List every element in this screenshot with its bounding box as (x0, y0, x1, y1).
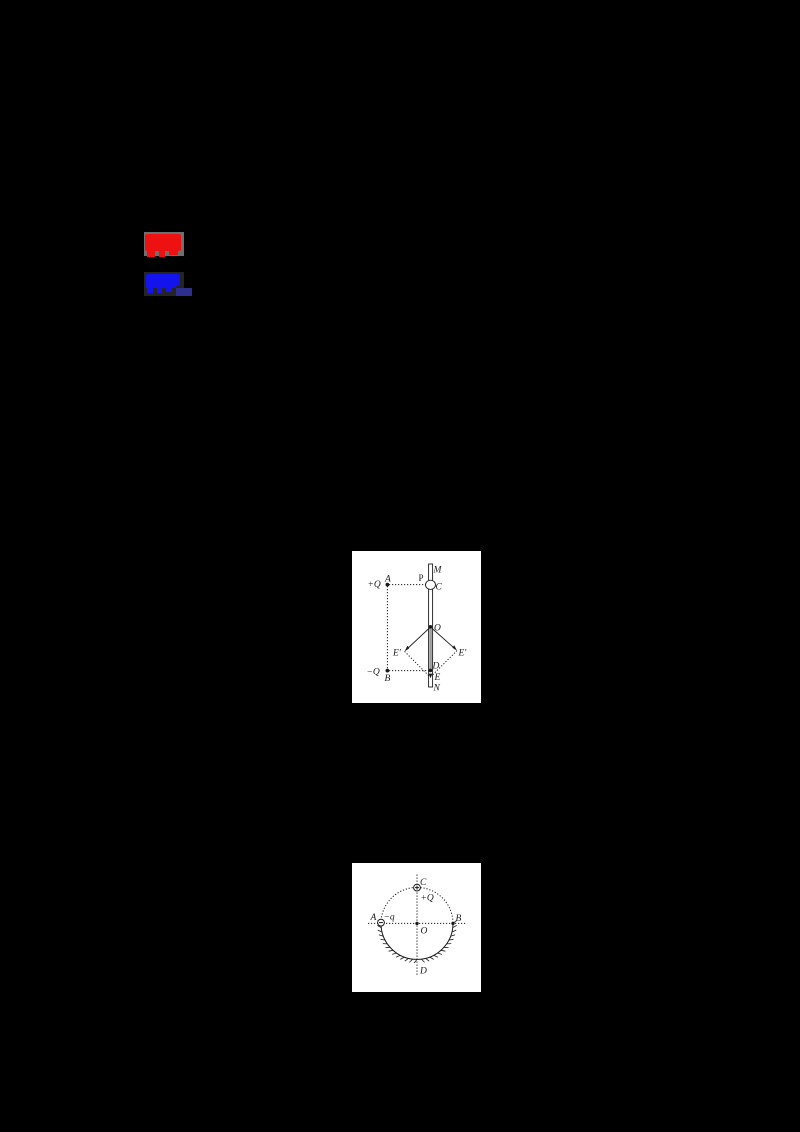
svg-text:B: B (385, 674, 391, 684)
svg-text:−Q: −Q (367, 668, 380, 678)
svg-text:D: D (419, 967, 427, 977)
svg-text:A: A (384, 575, 391, 585)
svg-text:N: N (433, 684, 441, 694)
svg-text:M: M (433, 566, 443, 576)
svg-text:E: E (434, 673, 441, 683)
svg-text:B: B (456, 914, 462, 924)
svg-text:O: O (434, 624, 441, 634)
svg-text:E′: E′ (392, 649, 402, 659)
svg-text:+Q: +Q (421, 894, 434, 904)
svg-text:C: C (436, 583, 443, 593)
svg-text:O: O (421, 927, 428, 937)
svg-text:D: D (432, 662, 440, 672)
svg-text:C: C (420, 878, 427, 888)
svg-text:A: A (370, 913, 377, 923)
svg-text:+Q: +Q (368, 580, 381, 590)
svg-text:E′: E′ (458, 649, 468, 659)
svg-text:−q: −q (384, 913, 395, 923)
svg-text:P: P (419, 573, 424, 583)
